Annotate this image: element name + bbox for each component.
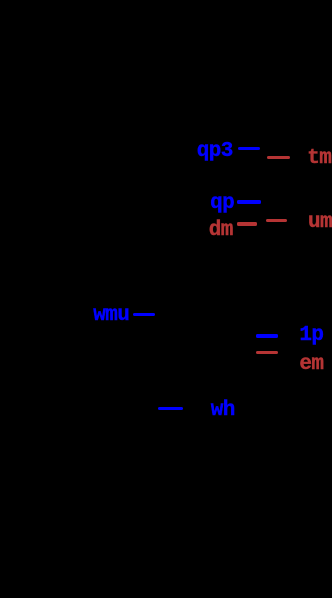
node 1p label (299, 325, 323, 346)
node um label (308, 212, 332, 233)
node dm label (209, 220, 233, 241)
node tm label (307, 148, 331, 169)
wire blue branch segment at qp3 (238, 147, 260, 150)
wire blue branch segment at 1p (256, 334, 278, 338)
wire red branch segment to tm (267, 156, 290, 159)
wire blue branch segment at qp (237, 200, 261, 204)
wire red branch segment at em (256, 351, 278, 354)
wire red branch segment at dm (237, 222, 257, 226)
node qp3 label (197, 141, 233, 162)
node wh label (211, 400, 235, 421)
node em label (299, 354, 323, 375)
wire blue branch segment at wh (158, 407, 183, 410)
node qp label (210, 193, 234, 214)
wire red branch segment to um (266, 219, 287, 222)
wire blue branch segment at wmu (133, 313, 155, 316)
node wmu label (93, 305, 129, 326)
